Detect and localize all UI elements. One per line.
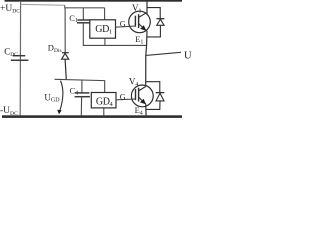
svg-text:U: U [184,51,192,62]
wire: upper gate-supply tap from bus [21,3,65,6]
UGD arrow [60,81,63,111]
freewheel diode of V1 [147,8,164,37]
wire: gate wire to V1 [116,26,136,27]
left DC bus wire [19,1,21,116]
svg-text:DDis: DDis [48,43,62,54]
svg-text:CDC: CDC [4,46,18,58]
wire: GD4 bottom [103,108,105,116]
svg-text:V4: V4 [129,76,139,88]
capacitor CDC [11,56,29,61]
wire: lower gate-supply rail [55,79,105,92]
capacitor C4 stub [81,80,83,93]
capacitor C1 stub [82,8,84,20]
+Udc top rail [5,0,183,2]
wire: C1 bottom to emitter reference rail [83,23,147,46]
svg-text:E1: E1 [135,34,143,46]
svg-text:C4: C4 [70,85,79,96]
svg-text:V1: V1 [132,3,142,15]
wire: output U tap [146,52,181,55]
wire: step down at x65 [65,5,105,8]
capacitor C4 [75,93,90,97]
gate driver GD4 [91,93,116,108]
wire: drop to bootstrap diode [64,8,66,53]
capacitor C1 [77,20,91,23]
wire: gate wire to V4 [116,98,135,101]
svg-text:UGD: UGD [44,92,60,103]
IGBT V4 [131,85,153,107]
svg-text:-UDC: -UDC [0,106,18,117]
svg-text:+UDC: +UDC [0,4,20,15]
wire: C4 bottom to -Udc rail [80,97,82,116]
-Udc bottom rail [2,115,182,118]
wire: V1 emitter down to V4 collector [146,31,147,86]
svg-text:G: G [120,93,126,102]
wire: V4 emitter to -Udc rail [145,104,147,115]
wire: V1 collector from rail [146,2,148,14]
freewheel diode of V4 [146,82,165,110]
gate driver GD1 [90,20,116,38]
diode DDis [62,53,69,80]
svg-text:C1: C1 [69,13,78,24]
wire: GD1 top drop [104,8,106,20]
wire: GD1 bottom [104,38,106,45]
IGBT V1 [129,11,151,33]
svg-text:G: G [120,20,126,29]
